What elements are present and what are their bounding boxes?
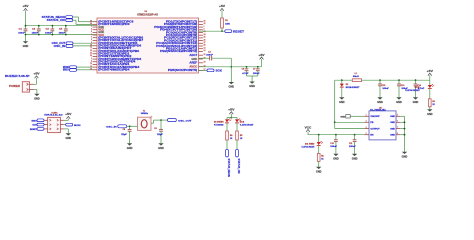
svg-text:22pF: 22pF [157,134,164,136]
svg-text:4: 4 [366,120,367,123]
svg-text:D2: D2 [415,87,420,89]
svg-text:MOSI: MOSI [63,67,69,69]
svg-text:GND: GND [249,85,255,88]
svg-text:C5: C5 [59,29,62,31]
svg-text:MISO: MISO [31,120,37,122]
svg-text:SCK: SCK [216,71,223,73]
svg-text:GND: GND [339,101,345,104]
svg-text:25: 25 [204,37,206,39]
svg-text:100nF: 100nF [382,88,389,90]
svg-text:68uH: 68uH [353,76,360,78]
svg-text:PC2(ADC2/PCINT10): PC2(ADC2/PCINT10) [164,37,197,40]
svg-text:C2: C2 [32,29,35,31]
svg-text:GND: GND [66,137,72,140]
svg-text:GND: GND [402,155,408,158]
svg-text:RESET: RESET [30,129,38,131]
svg-text:BUZZER 5.08-4P: BUZZER 5.08-4P [5,75,30,78]
svg-text:SS1B-E3/61T: SS1B-E3/61T [346,87,361,89]
svg-text:C15: C15 [382,85,385,87]
svg-text:PC4(ADC4/SDA/PCINT12): PC4(ADC4/SDA/PCINT12) [156,42,197,45]
svg-text:C4: C4 [208,51,211,54]
svg-text:R6: R6 [432,101,434,103]
svg-text:AVCC: AVCC [189,65,197,68]
svg-text:C1: C1 [19,29,22,31]
svg-text:L1: L1 [355,73,357,75]
svg-text:MISO: MISO [63,70,69,72]
svg-text:+5V: +5V [258,55,265,57]
svg-text:32: 32 [204,23,206,25]
svg-text:PC0(ADC0/PCINT8): PC0(ADC0/PCINT8) [166,31,198,34]
svg-text:22: 22 [204,54,206,56]
svg-text:(PCINT6/XTAL1/TOSC1)PB6: (PCINT6/XTAL1/TOSC1)PB6 [98,37,144,40]
svg-text:(PCINT22/OC0A/AIN0)PD6: (PCINT22/OC0A/AIN0)PD6 [98,45,142,48]
svg-text:YL-2/1T04C-HR1S2/3T: YL-2/1T04C-HR1S2/3T [301,146,315,149]
svg-text:4.7uF: 4.7uF [242,72,249,75]
svg-text:1: 1 [366,115,367,117]
svg-text:RESET: RESET [233,31,245,33]
svg-text:30: 30 [204,20,206,22]
svg-text:(PCINT1/OC1A)PB1: (PCINT1/OC1A)PB1 [98,63,130,66]
svg-text:R1: R1 [225,20,228,22]
svg-text:ATMEGA328P-AU: ATMEGA328P-AU [137,13,158,16]
svg-text:HDR-M-2.54_2x3: HDR-M-2.54_2x3 [44,114,63,117]
svg-text:R5: R5 [240,135,242,137]
svg-text:(PCINT23/AIN1)PD7: (PCINT23/AIN1)PD7 [98,47,132,50]
svg-text:OSC_OUT: OSC_OUT [178,121,192,123]
svg-text:(PCINT20/XCK/T0)PD4: (PCINT20/XCK/T0)PD4 [98,61,136,64]
svg-text:+5V: +5V [228,110,235,112]
svg-text:C8: C8 [123,129,125,131]
svg-text:GND: GND [427,113,433,116]
svg-text:7: 7 [397,127,398,129]
svg-text:STATUS_NEON: STATUS_NEON [227,159,230,178]
svg-text:PC3(ADC3/PCINT11): PC3(ADC3/PCINT11) [164,39,197,42]
svg-text:GND: GND [316,170,322,173]
svg-text:OSC_IN: OSC_IN [106,127,117,129]
svg-text:SCK: SCK [32,125,37,127]
svg-text:100nF: 100nF [45,32,53,34]
svg-text:(PCINT14/RESET)PC6: (PCINT14/RESET)PC6 [98,21,134,24]
svg-text:+5V: +5V [22,6,29,8]
svg-text:1K: 1K [432,104,435,106]
svg-text:2: 2 [204,29,205,31]
svg-text:26: 26 [204,39,206,41]
svg-text:14: 14 [204,49,206,52]
svg-text:STATUS_NEON: STATUS_NEON [42,16,66,19]
svg-text:PC1(ADC1/PCINT9): PC1(ADC1/PCINT9) [166,34,198,37]
svg-text:24: 24 [204,33,206,36]
svg-text:PB5(SCK/PCINT5): PB5(SCK/PCINT5) [168,70,198,72]
svg-text:+5V: +5V [427,71,434,73]
svg-text:ADC7: ADC7 [189,54,198,57]
svg-text:20: 20 [204,62,206,64]
svg-text:PD3(OC2B/INT1/PCINT19): PD3(OC2B/INT1/PCINT19) [154,27,197,29]
svg-text:C6: C6 [242,69,244,71]
svg-text:27: 27 [204,42,206,44]
svg-text:GND: GND [377,101,383,104]
svg-text:GND: GND [34,97,40,100]
svg-text:GND: GND [390,116,395,118]
svg-text:D1 RED: D1 RED [305,144,315,146]
svg-text:PD1(TXD/PCINT17): PD1(TXD/PCINT17) [166,22,198,24]
svg-text:100nF: 100nF [253,73,261,75]
svg-text:2: 2 [366,127,367,129]
svg-text:100nF: 100nF [206,55,214,57]
svg-text:OUTPUT: OUTPUT [370,128,380,130]
svg-text:AREF: AREF [189,62,198,65]
svg-text:16: 16 [90,68,92,70]
svg-text:GND: GND [340,117,345,119]
svg-text:STATUS_ON: STATUS_ON [237,159,240,174]
svg-text:C10: C10 [330,143,333,145]
svg-text:6: 6 [397,121,398,123]
svg-text:+5V: +5V [219,6,226,8]
svg-text:5: 5 [397,115,398,117]
svg-text:16MHz: 16MHz [141,113,148,115]
svg-text:C11: C11 [349,143,352,145]
svg-text:C9: C9 [154,128,156,130]
svg-text:R4: R4 [230,134,233,137]
svg-text:1K: 1K [240,138,243,140]
svg-text:GND: GND [390,128,395,130]
svg-text:GND: GND [390,122,395,124]
svg-text:1K: 1K [321,158,324,160]
svg-text:100uF: 100uF [330,146,338,148]
svg-text:1: 1 [204,26,205,28]
svg-text:YL-2/1T04C-HR1S2/3T: YL-2/1T04C-HR1S2/3T [405,89,420,92]
svg-text:PC5(ADC5/SCL/PCINT13): PC5(ADC5/SCL/PCINT13) [156,45,197,48]
svg-text:GND: GND [127,147,133,150]
svg-text:(PCINT7/XTAL2/TOSC2)PB7: (PCINT7/XTAL2/TOSC2)PB7 [98,39,144,42]
svg-text:OSC_OUT: OSC_OUT [52,43,66,45]
svg-text:PB2(SS/OC1B/PCINT2): PB2(SS/OC1B/PCINT2) [160,51,197,53]
svg-text:100nF: 100nF [32,32,40,34]
svg-text:D4: D4 [240,120,246,123]
svg-text:U1: U1 [145,11,149,13]
svg-text:POWER: POWER [9,86,20,88]
svg-text:+5V: +5V [65,114,72,116]
svg-text:+5V: +5V [33,74,40,76]
svg-text:(PCINT4/MISO)PB4: (PCINT4/MISO)PB4 [98,69,130,72]
svg-text:13: 13 [204,47,206,49]
svg-text:GND: GND [158,147,164,150]
svg-text:10K: 10K [225,23,231,25]
svg-text:R2: R2 [321,156,323,158]
svg-text:D3: D3 [346,84,348,86]
svg-text:D6 GREEN: D6 GREEN [214,122,224,124]
svg-text:GND: GND [390,134,395,136]
svg-text:OSC_IN: OSC_IN [54,46,66,48]
svg-text:28: 28 [204,45,206,47]
svg-text:MOSI: MOSI [74,125,81,127]
svg-text:GND: GND [333,157,339,160]
svg-text:8: 8 [397,133,398,135]
svg-text:GND: GND [229,86,235,89]
svg-text:VCC: VCC [305,127,312,129]
svg-text:STATUS_ON: STATUS_ON [47,19,66,22]
svg-text:PB1(OC1A/PCINT1): PB1(OC1A/PCINT1) [166,48,198,51]
svg-text:22pF: 22pF [121,134,128,136]
svg-text:YL-2/1T04C-HR1S2/3T: YL-2/1T04C-HR1S2/3T [240,123,254,126]
svg-text:PD4(XCK/T0/PCINT20): PD4(XCK/T0/PCINT20) [160,29,197,32]
svg-text:GND: GND [23,45,29,48]
svg-text:KT-0603G: KT-0603G [214,125,224,127]
svg-text:C3: C3 [46,29,49,31]
svg-text:C13: C13 [401,85,404,87]
svg-text:ON/OFF: ON/OFF [370,116,380,118]
svg-text:GND: GND [413,101,419,104]
svg-text:KL-7805(L)E1: KL-7805(L)E1 [370,109,386,111]
svg-text:GND: GND [191,59,197,61]
svg-text:1K: 1K [230,138,233,140]
svg-text:GND: GND [396,101,402,104]
svg-text:GND: GND [352,157,358,160]
svg-text:3: 3 [366,133,367,135]
svg-text:4: 4 [91,27,92,30]
svg-text:100nF: 100nF [18,32,26,34]
svg-text:C7: C7 [253,69,255,71]
svg-text:PD2(INT0/PCINT18): PD2(INT0/PCINT18) [164,24,197,26]
svg-text:(PCINT3/OC2A/MOSI)PB3: (PCINT3/OC2A/MOSI)PB3 [98,66,140,69]
svg-text:100uF: 100uF [349,146,357,148]
svg-text:100nF: 100nF [59,32,67,34]
